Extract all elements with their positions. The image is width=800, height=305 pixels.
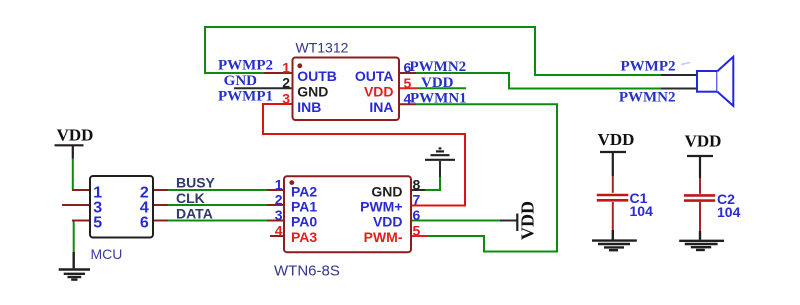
svg-text:1: 1 — [275, 176, 283, 192]
power VDD (C1) — [600, 152, 626, 176]
pin stub WTN6-8S pin5 (red) — [411, 235, 427, 237]
power VDD (C2) — [687, 156, 713, 178]
pin stub WT1312 pin6 — [398, 72, 416, 74]
pin stub WT1312 pin5 (red) — [398, 87, 418, 89]
svg-text:6: 6 — [140, 214, 149, 231]
svg-text:PWMN2: PWMN2 — [410, 59, 467, 75]
svg-text:PWMP2: PWMP2 — [621, 58, 676, 74]
svg-text:104: 104 — [717, 204, 741, 220]
svg-text:VDD: VDD — [364, 84, 394, 100]
svg-text:6: 6 — [413, 207, 421, 223]
ground (C1) — [592, 230, 637, 250]
pin stub WTN6-8S pin4 — [270, 235, 284, 237]
WTN6-8S pin1 dot — [289, 180, 294, 185]
pin stub MCU pin2 — [152, 189, 168, 191]
svg-text:DATA: DATA — [176, 205, 213, 221]
ground (MCU) — [59, 252, 90, 280]
wire VDD to MCU pin1 (green) — [72, 159, 74, 191]
svg-text:VDD: VDD — [421, 75, 454, 91]
svg-text:GND: GND — [297, 84, 328, 100]
pin stub WT1312 pin4 — [398, 103, 416, 105]
pin stub MCU pin3 — [62, 204, 90, 206]
pin stub MCU pin1 — [72, 189, 90, 191]
power VDD (left, above MCU) — [55, 145, 84, 158]
svg-text:VDD: VDD — [57, 126, 94, 145]
chip U2 WTN6-8S box — [284, 176, 411, 252]
svg-text:WT1312: WT1312 — [296, 40, 349, 56]
pin stub WT1312 pin1 — [264, 72, 293, 74]
svg-text:PWMP1: PWMP1 — [218, 88, 273, 104]
wire CLK (MCU pin4 to WTN6-8S pin2, green) — [168, 204, 267, 206]
wire VDD stub at WT1312 pin5 (green) — [418, 87, 467, 89]
svg-text:INB: INB — [297, 99, 321, 115]
wire BUSY (MCU pin2 to WTN6-8S pin1, green) — [168, 189, 267, 191]
artifact mark — [681, 63, 690, 65]
svg-text:4: 4 — [275, 222, 283, 238]
svg-text:2: 2 — [282, 75, 290, 91]
pin stub WT1312 pin2 GND (black) — [234, 87, 293, 89]
svg-text:VDD: VDD — [685, 131, 722, 150]
wire PWMN1 net (WT1312 pin4 to WTN6-8S pin5 PWM-, green) — [416, 104, 557, 251]
svg-text:WTN6-8S: WTN6-8S — [274, 262, 340, 279]
capacitor C2 — [699, 178, 701, 194]
svg-text:MCU: MCU — [91, 246, 123, 262]
wire DATA (MCU pin6 to WTN6-8S pin3, green) — [168, 220, 267, 222]
MCU box — [90, 176, 153, 238]
speaker LS1 — [697, 71, 717, 92]
svg-text:INA: INA — [369, 99, 393, 115]
wire WTN6-8S pin6 to VDD (green) — [411, 220, 500, 222]
svg-text:5: 5 — [93, 214, 102, 231]
ground (C2) — [679, 231, 724, 250]
WT1312 pin1 dot — [297, 63, 302, 68]
svg-text:VDD: VDD — [518, 201, 538, 240]
svg-text:5: 5 — [413, 222, 421, 238]
wire WTN6-8S pin8 to ground (green+black) — [425, 177, 440, 190]
svg-text:PA0: PA0 — [291, 214, 317, 230]
svg-text:8: 8 — [413, 176, 421, 192]
ground (WTN6-8S pin8, inverted) — [425, 148, 455, 159]
pin stub MCU pin6 — [152, 220, 168, 222]
power VDD (rotated, right of WTN6-8S pin6) — [516, 214, 518, 232]
svg-text:PA3: PA3 — [291, 229, 317, 245]
pin stub WTN6-8S pin1 — [267, 189, 284, 191]
pin stub MCU pin4 — [152, 204, 168, 206]
wire PWMN2 net (WT1312 pin6 to speaker bottom, green) — [416, 73, 661, 89]
svg-text:7: 7 — [413, 192, 421, 208]
pin stub WTN6-8S pin2 — [267, 204, 284, 206]
svg-text:VDD: VDD — [598, 130, 635, 149]
svg-text:PA2: PA2 — [291, 184, 317, 200]
svg-text:PWM-: PWM- — [364, 229, 403, 245]
svg-text:GND: GND — [371, 184, 402, 200]
wire INB to PWM+ (red) — [263, 104, 465, 206]
svg-text:OUTB: OUTB — [297, 68, 337, 84]
svg-text:OUTA: OUTA — [355, 68, 394, 84]
svg-text:3: 3 — [275, 207, 283, 223]
wire speaker top black segment — [661, 74, 697, 76]
svg-text:BUSY: BUSY — [176, 175, 216, 191]
svg-text:PWMN2: PWMN2 — [619, 89, 676, 105]
op chip U1 WT1312 box — [293, 58, 400, 121]
svg-text:PWM+: PWM+ — [360, 199, 402, 215]
svg-text:PWMN1: PWMN1 — [410, 90, 467, 106]
svg-text:104: 104 — [630, 203, 654, 219]
svg-text:VDD: VDD — [373, 214, 403, 230]
svg-text:PWMP2: PWMP2 — [218, 58, 273, 74]
wire speaker bottom black segment — [661, 88, 697, 90]
svg-text:2: 2 — [275, 192, 283, 208]
wire MCU pin5 to ground (green) — [73, 221, 75, 253]
svg-text:5: 5 — [404, 75, 412, 91]
svg-text:GND: GND — [224, 73, 258, 89]
pin stub WTN6-8S pin3 — [267, 220, 284, 222]
svg-text:CLK: CLK — [176, 190, 205, 206]
svg-text:PA1: PA1 — [291, 199, 317, 215]
wire PWMP2 net (WT1312 pin1 to speaker top, green) — [205, 27, 661, 75]
capacitor C1 — [612, 176, 614, 193]
svg-text:3: 3 — [282, 91, 290, 107]
svg-text:1: 1 — [282, 59, 290, 75]
pin stub MCU pin5 — [72, 220, 90, 222]
